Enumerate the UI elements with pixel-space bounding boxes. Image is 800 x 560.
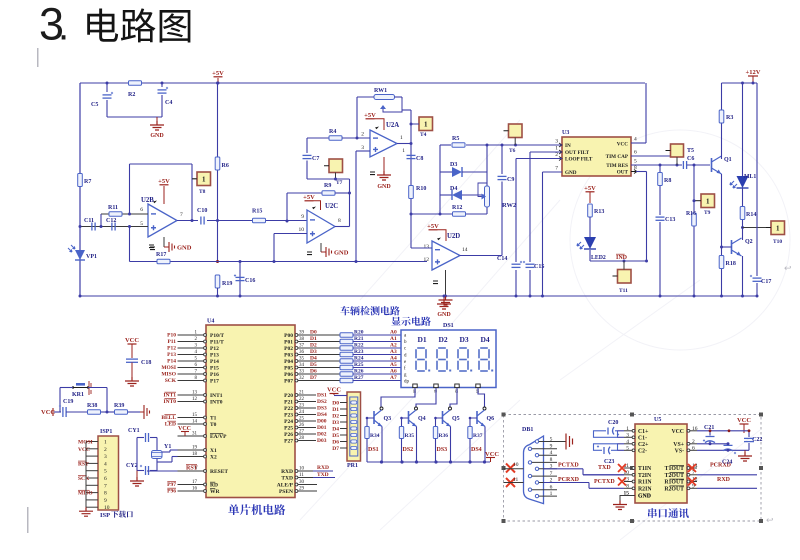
svg-text:1: 1 xyxy=(550,491,553,497)
resistor R9 xyxy=(322,191,335,196)
svg-text:10: 10 xyxy=(299,227,305,233)
ground U5 GND pin xyxy=(620,496,635,501)
svg-text:+5V: +5V xyxy=(212,70,224,77)
svg-text:P12: P12 xyxy=(210,346,219,352)
svg-text:C1-: C1- xyxy=(638,436,647,442)
resistor R4 xyxy=(307,137,329,139)
svg-text:LED: LED xyxy=(165,422,176,428)
svg-text:14: 14 xyxy=(192,420,198,425)
op-amp U2D xyxy=(432,241,460,270)
wires display to transistors xyxy=(381,388,415,407)
svg-text:D7: D7 xyxy=(332,446,339,452)
wire LED2 to IND xyxy=(589,250,591,261)
svg-text:P05: P05 xyxy=(284,366,293,372)
svg-text:Q4: Q4 xyxy=(418,416,426,422)
svg-text:C19: C19 xyxy=(63,399,73,405)
svg-text:INT0: INT0 xyxy=(210,400,223,406)
svg-text:C11: C11 xyxy=(84,218,94,224)
svg-text:D2: D2 xyxy=(439,335,448,344)
svg-text:1: 1 xyxy=(202,175,206,183)
potentiometer RW2 xyxy=(486,145,488,214)
svg-text:D3: D3 xyxy=(460,335,469,344)
svg-text:1: 1 xyxy=(104,440,107,446)
svg-text:+5V: +5V xyxy=(427,223,439,230)
svg-text:31: 31 xyxy=(192,432,198,437)
svg-text:R13: R13 xyxy=(594,209,604,215)
svg-text:P27: P27 xyxy=(284,439,293,445)
svg-text:GND: GND xyxy=(377,184,391,190)
svg-text:16: 16 xyxy=(192,487,198,492)
svg-text:16: 16 xyxy=(692,426,698,432)
wire T5 stub down xyxy=(676,157,678,165)
ground GND under C4 xyxy=(156,117,158,121)
svg-text:C10: C10 xyxy=(197,208,207,214)
svg-text:A7: A7 xyxy=(390,375,397,381)
svg-text:D03: D03 xyxy=(317,438,327,444)
svg-text:DS1: DS1 xyxy=(368,447,379,453)
svg-text:D5: D5 xyxy=(332,433,339,439)
svg-text:9: 9 xyxy=(550,444,553,450)
ground U5 right xyxy=(744,450,746,452)
resistor R7 xyxy=(79,83,81,296)
wire OUT FILT net xyxy=(530,151,562,153)
wire R4 to pin2 xyxy=(342,137,370,139)
pin X 10 xyxy=(506,464,515,473)
svg-text:10: 10 xyxy=(104,505,110,511)
transistor Q4 xyxy=(415,407,418,410)
svg-text:GND: GND xyxy=(150,133,164,139)
svg-text:9: 9 xyxy=(301,214,304,220)
yellow box T10 xyxy=(771,221,785,235)
svg-text:P14: P14 xyxy=(167,359,176,365)
svg-text:R1IN: R1IN xyxy=(638,480,652,486)
svg-text:D6: D6 xyxy=(332,440,339,446)
svg-text:C14: C14 xyxy=(497,256,507,262)
svg-text:2: 2 xyxy=(692,439,695,445)
svg-text:3: 3 xyxy=(104,454,107,460)
svg-text:12: 12 xyxy=(192,397,198,402)
capacitor C15 xyxy=(525,262,535,270)
svg-text:VCC: VCC xyxy=(78,447,90,453)
op-amp U2B xyxy=(148,204,177,237)
switch KR1 xyxy=(73,387,88,389)
svg-text:CY2: CY2 xyxy=(126,463,138,469)
capacitor C7 xyxy=(306,138,308,153)
resistor R17 xyxy=(157,259,170,264)
svg-text:P11/T: P11/T xyxy=(210,340,224,346)
svg-text:DB1: DB1 xyxy=(522,427,533,433)
svg-text:C6: C6 xyxy=(687,156,694,162)
svg-text:WR: WR xyxy=(210,489,221,495)
ground GND U2B xyxy=(163,237,165,247)
svg-text:8: 8 xyxy=(338,218,341,224)
wire U2C output xyxy=(335,226,350,228)
X marks on U5 pins xyxy=(618,464,626,472)
svg-text:D1: D1 xyxy=(310,336,317,342)
svg-text:LED2: LED2 xyxy=(591,255,606,261)
svg-text:3: 3 xyxy=(626,432,629,438)
svg-text:4: 4 xyxy=(104,461,107,467)
connector ISP1 xyxy=(98,436,119,510)
svg-text:P16: P16 xyxy=(210,372,219,378)
resistor R35 xyxy=(401,418,403,426)
svg-text:6: 6 xyxy=(634,150,637,156)
wire U3 VCC pin4 xyxy=(631,142,646,144)
svg-text:C8: C8 xyxy=(416,156,423,162)
wire top rail +5V xyxy=(80,82,645,84)
svg-text:P07: P07 xyxy=(284,379,293,385)
svg-text:7: 7 xyxy=(550,471,553,477)
svg-text:TXD: TXD xyxy=(281,476,293,482)
resistor R6 xyxy=(217,83,219,262)
chip U4 left pins xyxy=(178,334,207,336)
svg-text:D1: D1 xyxy=(418,335,427,344)
ground GND U2C xyxy=(320,243,322,252)
svg-text:P20: P20 xyxy=(284,393,293,399)
svg-text:MOSI: MOSI xyxy=(78,440,93,446)
svg-text:D3: D3 xyxy=(310,349,317,355)
svg-text:RW2: RW2 xyxy=(502,202,516,209)
svg-text:LOOP FILT: LOOP FILT xyxy=(565,157,593,163)
svg-text:↩: ↩ xyxy=(784,263,792,273)
resistor R12 xyxy=(411,213,452,215)
svg-text:1: 1 xyxy=(402,148,405,154)
svg-text:INT1: INT1 xyxy=(163,393,176,399)
wire U3 OUT pin8 xyxy=(631,170,637,174)
wire T2OUT xyxy=(697,474,757,476)
diode D4 xyxy=(440,194,452,196)
svg-text:T2OUT: T2OUT xyxy=(665,473,684,479)
wire U3 GND pin7 xyxy=(543,171,563,173)
svg-text:A3: A3 xyxy=(390,349,397,355)
svg-text:R2OUT: R2OUT xyxy=(664,487,684,493)
svg-text:Q3: Q3 xyxy=(384,416,392,422)
chip U4 MCU xyxy=(206,325,295,498)
svg-text:Q2: Q2 xyxy=(745,239,753,245)
svg-text:ISP1: ISP1 xyxy=(100,429,112,435)
svg-text:OUT FILT: OUT FILT xyxy=(565,150,590,156)
svg-text:P17: P17 xyxy=(210,379,219,385)
svg-text:RST: RST xyxy=(186,466,198,472)
wire KR1 net xyxy=(60,387,73,389)
resistor R5 xyxy=(440,144,451,146)
display DS1 box xyxy=(401,330,496,388)
svg-text:DS3: DS3 xyxy=(437,447,448,453)
pin X 11 xyxy=(506,478,515,487)
svg-text:P04: P04 xyxy=(284,359,293,365)
svg-text:15: 15 xyxy=(192,413,198,418)
svg-text:17: 17 xyxy=(192,480,198,485)
svg-text:5: 5 xyxy=(634,159,637,165)
svg-text:C18: C18 xyxy=(141,360,151,366)
svg-text:T0: T0 xyxy=(210,422,217,428)
svg-text:T8: T8 xyxy=(199,189,206,195)
wire +12V rail xyxy=(722,82,758,84)
capacitor C18 xyxy=(126,358,138,360)
wire base Q6 xyxy=(470,417,477,419)
svg-text:+5V: +5V xyxy=(584,185,596,192)
wire DB1 pin3 to T2IN xyxy=(544,468,584,470)
svg-text:6: 6 xyxy=(140,207,143,213)
svg-text:D00: D00 xyxy=(317,419,327,425)
svg-text:12: 12 xyxy=(424,257,430,263)
svg-text:P06: P06 xyxy=(284,372,293,378)
wire T6 stub xyxy=(514,138,516,146)
svg-text:6: 6 xyxy=(692,445,695,451)
svg-text:IND: IND xyxy=(616,255,628,261)
transistor Q5 xyxy=(449,407,452,410)
svg-text:DS1: DS1 xyxy=(443,323,454,329)
svg-text:R17: R17 xyxy=(156,252,166,258)
wire T8 to feedback xyxy=(192,178,197,180)
svg-text:10: 10 xyxy=(513,462,519,468)
svg-text:VS+: VS+ xyxy=(673,442,684,448)
wire emitter Q6 xyxy=(484,427,486,463)
wire RW1 right xyxy=(395,96,403,98)
svg-text:A6: A6 xyxy=(390,369,397,375)
svg-text:P14: P14 xyxy=(210,359,219,365)
wire base Q5 xyxy=(436,417,443,419)
svg-text:4: 4 xyxy=(550,450,553,456)
svg-text:C17: C17 xyxy=(761,279,771,285)
svg-text:PSEN: PSEN xyxy=(279,489,293,495)
svg-text:R14: R14 xyxy=(746,212,756,218)
svg-text:+5V: +5V xyxy=(158,178,170,185)
capacitor C13 xyxy=(656,216,665,218)
wire Q2 collector emitter xyxy=(742,237,744,240)
svg-text:D3: D3 xyxy=(332,420,339,426)
ground crystal xyxy=(136,471,138,478)
chip U3 xyxy=(562,137,631,176)
svg-text:C4: C4 xyxy=(165,100,172,106)
svg-text:A5: A5 xyxy=(390,362,397,368)
LED LED2 xyxy=(584,237,596,249)
svg-text:T2IN: T2IN xyxy=(638,473,652,479)
wire base Q4 xyxy=(402,417,409,419)
wire Q1 emitter xyxy=(721,174,723,255)
svg-text:GND: GND xyxy=(565,170,577,176)
svg-text:P26: P26 xyxy=(284,432,293,438)
resistor R36 xyxy=(435,418,437,426)
wire R11 tap xyxy=(100,214,102,227)
yellow box T5 xyxy=(671,144,684,157)
svg-text:INT1: INT1 xyxy=(210,393,223,399)
ground ISP xyxy=(79,507,93,516)
svg-text:R11: R11 xyxy=(108,205,118,211)
wire DB1 pin2 to R2IN xyxy=(544,482,590,484)
wire TIM RES net xyxy=(631,164,682,166)
svg-text:GND: GND xyxy=(437,312,451,318)
svg-text:R6: R6 xyxy=(222,163,229,169)
svg-text:9: 9 xyxy=(104,498,107,504)
wire U2C plus input xyxy=(274,233,307,235)
svg-text:19: 19 xyxy=(192,446,198,451)
label vehicle detection circuit xyxy=(340,306,400,315)
junction dots bottom bus xyxy=(79,295,82,298)
svg-text:7: 7 xyxy=(104,483,107,489)
capacitor C11 xyxy=(80,226,148,228)
yellow box T6 xyxy=(509,124,523,138)
capacitor C5 xyxy=(106,83,108,92)
capacitor C19 xyxy=(62,407,64,417)
svg-text:3: 3 xyxy=(555,139,558,145)
svg-text:C16: C16 xyxy=(245,278,255,284)
svg-text:1: 1 xyxy=(626,426,629,432)
resistor R14 xyxy=(742,188,744,206)
node R6 line xyxy=(216,219,219,222)
svg-text:ALE/P: ALE/P xyxy=(277,483,294,489)
wire R9 right xyxy=(335,192,350,194)
svg-text:VCC: VCC xyxy=(617,142,628,148)
svg-text:T4: T4 xyxy=(420,132,427,138)
svg-text:14: 14 xyxy=(462,247,468,253)
svg-text:D1: D1 xyxy=(332,407,339,413)
svg-text:DS4: DS4 xyxy=(317,412,327,418)
transistor Q6 xyxy=(483,407,486,410)
ground under C18 xyxy=(125,377,139,386)
svg-text:VP1: VP1 xyxy=(86,254,97,260)
wire diode network left xyxy=(439,145,441,214)
svg-text:R8: R8 xyxy=(664,178,671,184)
svg-text:U2C: U2C xyxy=(325,203,338,210)
resistor R38 xyxy=(88,410,101,415)
resistor R18 xyxy=(719,256,724,269)
label serial communication xyxy=(648,508,689,518)
svg-text:5: 5 xyxy=(626,445,629,451)
svg-text:P01: P01 xyxy=(284,340,293,346)
capacitor C16 xyxy=(239,262,241,297)
svg-text:C9: C9 xyxy=(507,177,514,183)
wires RXD TXD ALE PSEN xyxy=(295,470,333,472)
svg-text:7: 7 xyxy=(180,212,183,218)
svg-text:D5: D5 xyxy=(310,362,317,368)
wire R16 column xyxy=(693,165,695,296)
svg-text:D2: D2 xyxy=(310,343,317,349)
svg-text:DS2: DS2 xyxy=(317,399,327,405)
svg-text:8: 8 xyxy=(104,491,107,497)
svg-text:2: 2 xyxy=(361,132,364,138)
svg-text:INT0: INT0 xyxy=(163,399,176,405)
svg-text:C5: C5 xyxy=(91,102,98,108)
svg-text:P97: P97 xyxy=(167,482,176,488)
wire U2B output xyxy=(177,220,252,222)
svg-text:RXD: RXD xyxy=(281,469,293,475)
svg-text:Q6: Q6 xyxy=(487,416,495,422)
LED ML1 xyxy=(742,83,744,176)
wire U2A output node xyxy=(397,143,411,145)
wire LOOP FILT net xyxy=(516,158,562,160)
svg-text:D0: D0 xyxy=(310,330,317,336)
svg-text:U4: U4 xyxy=(207,319,214,325)
svg-text:P10: P10 xyxy=(167,333,176,339)
svg-text:Q1: Q1 xyxy=(724,157,732,163)
svg-text:MISO: MISO xyxy=(161,372,176,378)
resistor R10 xyxy=(409,186,414,199)
svg-text:7: 7 xyxy=(555,166,558,172)
svg-text:X1: X1 xyxy=(210,448,217,454)
display 7-segment digits xyxy=(416,348,426,371)
svg-text:MOSI: MOSI xyxy=(161,365,176,371)
svg-text:GND: GND xyxy=(638,494,651,500)
svg-text:+12V: +12V xyxy=(746,69,761,76)
wire U2D pin13 xyxy=(411,247,432,249)
wire left rail xyxy=(79,83,81,296)
svg-text:D6: D6 xyxy=(310,369,317,375)
svg-text:R39: R39 xyxy=(114,403,124,409)
svg-text:D2: D2 xyxy=(332,414,339,420)
wire ISP ground rail xyxy=(85,442,87,508)
svg-text:6: 6 xyxy=(104,476,107,482)
svg-text:1: 1 xyxy=(424,120,428,128)
svg-text:C13: C13 xyxy=(665,217,675,223)
svg-text:P10/T: P10/T xyxy=(210,333,224,339)
node R17 line xyxy=(216,260,219,263)
ground GND U2A xyxy=(383,157,385,171)
svg-text:T10: T10 xyxy=(773,239,782,245)
svg-text:C2-: C2- xyxy=(638,449,647,455)
svg-text:Q5: Q5 xyxy=(452,416,460,422)
wire TIM CAP net xyxy=(631,155,673,157)
yellow box T7 xyxy=(329,159,343,173)
wires U4 port0 to resistors xyxy=(295,334,340,336)
svg-text:P25: P25 xyxy=(284,426,293,432)
resistor R8 xyxy=(659,165,661,172)
wire T4 column xyxy=(410,110,412,185)
capacitor C10 xyxy=(198,217,207,224)
svg-text:R2IN: R2IN xyxy=(638,487,652,493)
resistor R34 xyxy=(366,418,368,426)
wire RW1 left xyxy=(357,96,374,98)
wire C7-T7-R9 net xyxy=(307,178,350,180)
wire R2OUT xyxy=(697,487,757,489)
label display circuit xyxy=(391,317,430,326)
svg-text:U5: U5 xyxy=(654,417,661,423)
wire driver bus xyxy=(367,461,490,463)
svg-text:RST: RST xyxy=(78,461,89,467)
svg-text:P03: P03 xyxy=(284,353,293,359)
svg-text:A4: A4 xyxy=(390,356,397,362)
svg-text:U3: U3 xyxy=(562,130,569,136)
svg-text:IN: IN xyxy=(565,143,571,149)
svg-text:R4: R4 xyxy=(329,129,336,135)
op-amp U2A xyxy=(370,130,397,157)
svg-text:1: 1 xyxy=(400,135,403,141)
svg-text:R2: R2 xyxy=(128,92,135,98)
svg-text:dp: dp xyxy=(404,380,410,385)
capacitor C12 xyxy=(111,223,113,231)
svg-text:T5: T5 xyxy=(687,148,694,154)
svg-text:T1: T1 xyxy=(210,416,217,422)
resistor R16 xyxy=(692,213,697,226)
svg-text:2: 2 xyxy=(555,152,558,158)
svg-text:DS2: DS2 xyxy=(403,447,414,453)
resistor R39 xyxy=(115,410,128,415)
wires U4 port2 stubs xyxy=(295,394,316,396)
svg-text:R9: R9 xyxy=(324,183,331,189)
wire Q2 base xyxy=(722,246,732,248)
svg-text:Y1: Y1 xyxy=(164,444,171,450)
svg-text:P11: P11 xyxy=(167,339,176,345)
svg-text:4: 4 xyxy=(626,439,629,445)
svg-text:D4: D4 xyxy=(310,356,317,362)
svg-text:GND: GND xyxy=(334,250,349,257)
svg-text:A0: A0 xyxy=(390,330,397,336)
resistor R2 xyxy=(129,81,142,86)
svg-text:RXD: RXD xyxy=(717,477,731,483)
svg-text:P13: P13 xyxy=(167,352,176,358)
svg-text:U2D: U2D xyxy=(447,233,460,240)
svg-text:PCTXD: PCTXD xyxy=(594,479,615,485)
